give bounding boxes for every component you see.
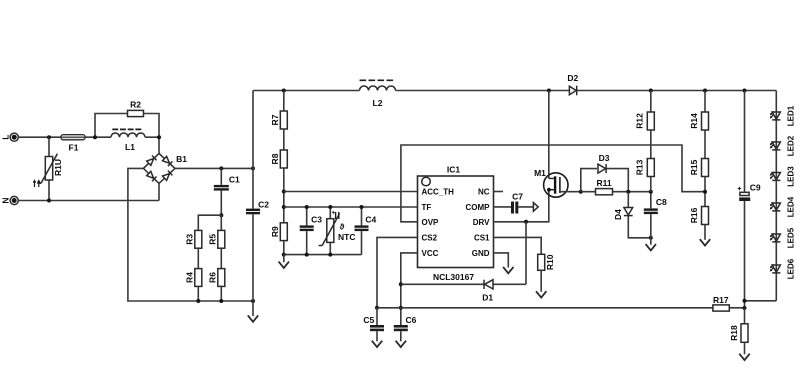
svg-text:M1: M1 <box>534 168 546 178</box>
node R2 loop right <box>157 135 161 139</box>
svg-text:C4: C4 <box>365 214 376 224</box>
resistor R13 <box>635 159 655 177</box>
thermistor NTC <box>319 207 356 255</box>
node N-varistor junction <box>47 199 51 203</box>
ground below R10 <box>536 270 546 297</box>
svg-text:C7: C7 <box>512 191 523 201</box>
wire CS1 <box>494 237 542 254</box>
capacitor C4 <box>355 207 377 255</box>
svg-text:R13: R13 <box>635 159 645 175</box>
svg-text:D4: D4 <box>613 209 623 220</box>
wire OVP <box>401 145 705 222</box>
wire top rail left <box>253 90 360 92</box>
node rail R6 <box>219 299 223 303</box>
node C5 rail <box>375 306 379 310</box>
node C8 bottom <box>649 236 653 240</box>
node ACC tap <box>282 190 286 194</box>
node top rail R7 <box>282 89 286 93</box>
node top rail C9 <box>743 89 747 93</box>
bridge diode top-right <box>163 156 170 163</box>
ground below R16 <box>700 225 710 246</box>
wire R3-R4 <box>197 248 199 268</box>
svg-text:CS1: CS1 <box>474 234 490 243</box>
ground below C6 <box>396 331 406 347</box>
capacitor C7 <box>511 191 523 213</box>
varistor U arrows <box>33 179 41 187</box>
svg-text:R4: R4 <box>185 272 195 283</box>
svg-text:R5: R5 <box>208 234 218 245</box>
diode D1 <box>482 280 493 303</box>
svg-text:LED4: LED4 <box>786 196 795 217</box>
node R2 loop left <box>93 135 97 139</box>
IC1 box <box>418 165 494 282</box>
svg-text:C1: C1 <box>229 175 240 185</box>
wire C5 stub <box>376 308 378 325</box>
svg-text:ϑ: ϑ <box>340 222 345 231</box>
wire VCC <box>401 253 418 325</box>
LED5 <box>770 227 796 248</box>
wire C1 to R5 <box>220 215 222 230</box>
wire R2 parallel loop <box>95 114 159 138</box>
node plus rail / C2 column <box>251 166 255 170</box>
inductor L1 <box>111 129 145 151</box>
node top rail R12 <box>649 89 653 93</box>
svg-text:N: N <box>1 197 11 203</box>
svg-text:R16: R16 <box>689 207 699 223</box>
svg-text:R7: R7 <box>270 114 280 125</box>
wire R8 down <box>283 168 285 223</box>
svg-text:TF: TF <box>422 203 432 212</box>
svg-text:CS2: CS2 <box>422 234 438 243</box>
svg-text:R1U: R1U <box>53 159 63 176</box>
node DRV branch <box>524 220 528 224</box>
node R11 D4 <box>626 190 630 194</box>
wire jog to R3 <box>198 215 221 230</box>
svg-text:LED1: LED1 <box>786 105 795 126</box>
wire LED column top <box>775 91 777 301</box>
wire D3 loop <box>581 169 629 192</box>
svg-text:D3: D3 <box>599 153 610 163</box>
node NTC top <box>328 205 332 209</box>
diode D3 <box>598 153 610 173</box>
svg-text:GND: GND <box>472 249 490 258</box>
ground below R18 <box>739 342 749 360</box>
svg-text:F1: F1 <box>69 143 79 153</box>
node source <box>579 190 583 194</box>
wire R7-R8 <box>283 129 285 150</box>
wire R11 row <box>581 191 651 193</box>
ground below C2 rail <box>248 301 258 322</box>
ground below GND pin <box>503 267 513 273</box>
svg-text:OVP: OVP <box>422 218 440 227</box>
resistor R11 <box>596 178 613 195</box>
wire bridge minus loop <box>128 168 253 301</box>
fuse F1 <box>61 135 85 153</box>
node C1 top <box>219 166 223 170</box>
ground below C8 <box>646 238 656 251</box>
node VCC D1 junction <box>399 282 403 286</box>
resistor R7 <box>270 91 288 130</box>
node rail R4 <box>196 299 200 303</box>
svg-text:DRV: DRV <box>473 218 490 227</box>
LED3 <box>770 166 796 187</box>
resistor R15 <box>689 159 708 177</box>
svg-text:COMP: COMP <box>466 203 491 212</box>
wire M1 source <box>560 191 581 193</box>
svg-text:L: L <box>1 135 11 140</box>
capacitor C5 <box>363 315 384 331</box>
resistor R6 <box>208 269 225 287</box>
node C1 bottom jog <box>219 213 223 217</box>
wire bottom sense rail <box>377 307 745 309</box>
node L-varistor junction <box>47 135 51 139</box>
wire D1 <box>401 283 526 285</box>
terminal N <box>1 196 19 204</box>
svg-text:NTC: NTC <box>338 232 355 242</box>
svg-text:LED5: LED5 <box>786 227 795 248</box>
svg-text:R2: R2 <box>130 100 141 110</box>
wire N input <box>19 200 160 202</box>
svg-text:D2: D2 <box>567 73 578 83</box>
wire top rail right <box>396 90 777 92</box>
svg-text:NCL30167: NCL30167 <box>433 272 474 282</box>
ground arrow right of C7 <box>533 203 538 212</box>
svg-text:LED3: LED3 <box>786 166 795 187</box>
wire GND pin <box>494 253 509 268</box>
wire ACC_TH <box>284 191 418 193</box>
resistor R9 <box>270 223 288 241</box>
varistor R1U <box>37 137 63 200</box>
wire LED bottom rail <box>745 301 777 308</box>
svg-text:R8: R8 <box>270 153 280 164</box>
node C9 bottom <box>743 299 747 303</box>
transistor M1 <box>534 168 568 197</box>
diode D4 zener <box>613 192 651 238</box>
svg-text:L2: L2 <box>373 98 383 108</box>
resistor R8 <box>270 150 288 168</box>
wire COMP <box>494 206 534 208</box>
svg-text:ACC_TH: ACC_TH <box>422 188 455 197</box>
resistor R18 <box>729 308 748 342</box>
resistor R16 <box>689 207 708 225</box>
svg-text:C6: C6 <box>405 315 416 325</box>
bridge diode top-left <box>147 159 154 166</box>
wire DRV <box>494 190 549 222</box>
capacitor C9 <box>738 91 761 301</box>
wire bridge bottom to N <box>158 183 160 200</box>
node rail C2 ground <box>251 299 255 303</box>
LED2 <box>770 135 796 156</box>
resistor R4 <box>185 269 202 287</box>
wire NC stub <box>494 191 504 193</box>
svg-text:VCC: VCC <box>422 249 439 258</box>
svg-text:L1: L1 <box>125 142 135 152</box>
node R17 R18 junction <box>743 306 747 310</box>
resistor R14 <box>689 91 708 131</box>
capacitor C3 <box>300 207 323 255</box>
terminal L <box>1 133 19 141</box>
svg-text:IC1: IC1 <box>447 165 461 175</box>
svg-text:R15: R15 <box>689 159 699 175</box>
node C3 bottom <box>305 253 309 257</box>
bridge diode bottom-right <box>163 174 170 181</box>
wire R4 to rail <box>197 286 199 301</box>
wire CS2 <box>377 237 418 307</box>
wire L1 to bridge <box>145 137 159 153</box>
ground below R9 <box>279 255 289 268</box>
capacitor C2 <box>246 91 269 302</box>
resistor R3 <box>185 230 202 248</box>
bridge diode bottom-left <box>147 171 154 178</box>
resistor R17 <box>713 295 729 311</box>
node NTC bottom <box>328 253 332 257</box>
LED4 <box>770 196 796 217</box>
wire bridge plus rail <box>175 167 253 169</box>
resistor R5 <box>208 230 225 248</box>
svg-text:C5: C5 <box>363 315 374 325</box>
wire L input <box>19 136 112 138</box>
resistor R10 <box>538 254 555 270</box>
capacitor C6 <box>394 315 417 331</box>
svg-text:LED6: LED6 <box>786 258 795 279</box>
bridge B1 diamond <box>143 153 175 183</box>
svg-text:C2: C2 <box>258 199 269 209</box>
resistor R12 <box>635 91 655 131</box>
svg-text:C8: C8 <box>656 197 667 207</box>
svg-text:R9: R9 <box>270 226 280 237</box>
svg-text:R14: R14 <box>689 113 699 129</box>
svg-text:R6: R6 <box>208 272 218 283</box>
svg-text:D1: D1 <box>482 292 493 302</box>
wire R13 down <box>650 177 652 192</box>
svg-text:LED2: LED2 <box>786 135 795 156</box>
svg-text:R18: R18 <box>729 325 739 341</box>
svg-text:NC: NC <box>478 188 490 197</box>
LED6 <box>770 258 796 279</box>
svg-text:R12: R12 <box>635 113 645 129</box>
wire R12-R13 <box>650 130 652 159</box>
wire TF rail <box>284 206 418 208</box>
ground below C5 <box>372 331 382 347</box>
diode D2 <box>567 73 578 95</box>
wire NTC bottom rail <box>284 254 362 256</box>
wire R9 down <box>283 241 285 255</box>
inductor L2 <box>360 80 396 108</box>
LED1 <box>770 105 796 126</box>
svg-text:C9: C9 <box>750 182 761 192</box>
svg-text:R3: R3 <box>185 234 195 245</box>
svg-text:B1: B1 <box>176 154 187 164</box>
NTC temperature symbol <box>332 211 339 219</box>
wire R5-R6 <box>220 248 222 268</box>
wire R6 to rail <box>220 286 222 301</box>
capacitor C1 <box>214 168 240 215</box>
wire R15 down <box>704 177 706 207</box>
wire DRV to D1 <box>525 222 527 284</box>
node C4 top <box>360 205 364 209</box>
node TF tap <box>282 205 286 209</box>
node C3 top <box>305 205 309 209</box>
svg-text:R17: R17 <box>713 295 729 305</box>
node top rail M1 drain <box>547 89 551 93</box>
svg-text:C3: C3 <box>311 214 322 224</box>
node R13 C8 R11 junction <box>649 190 653 194</box>
node C6 rail <box>399 306 403 310</box>
node top rail R14 <box>703 89 707 93</box>
svg-text:R10: R10 <box>545 254 555 270</box>
wire M1 drain <box>548 91 550 179</box>
capacitor C8 <box>644 192 667 238</box>
svg-text:R11: R11 <box>596 178 611 188</box>
resistor R2 <box>128 100 144 117</box>
wire R14-R15 <box>704 130 706 159</box>
node OVP divider tap <box>703 190 707 194</box>
node NTC bottom rail left <box>282 253 286 257</box>
